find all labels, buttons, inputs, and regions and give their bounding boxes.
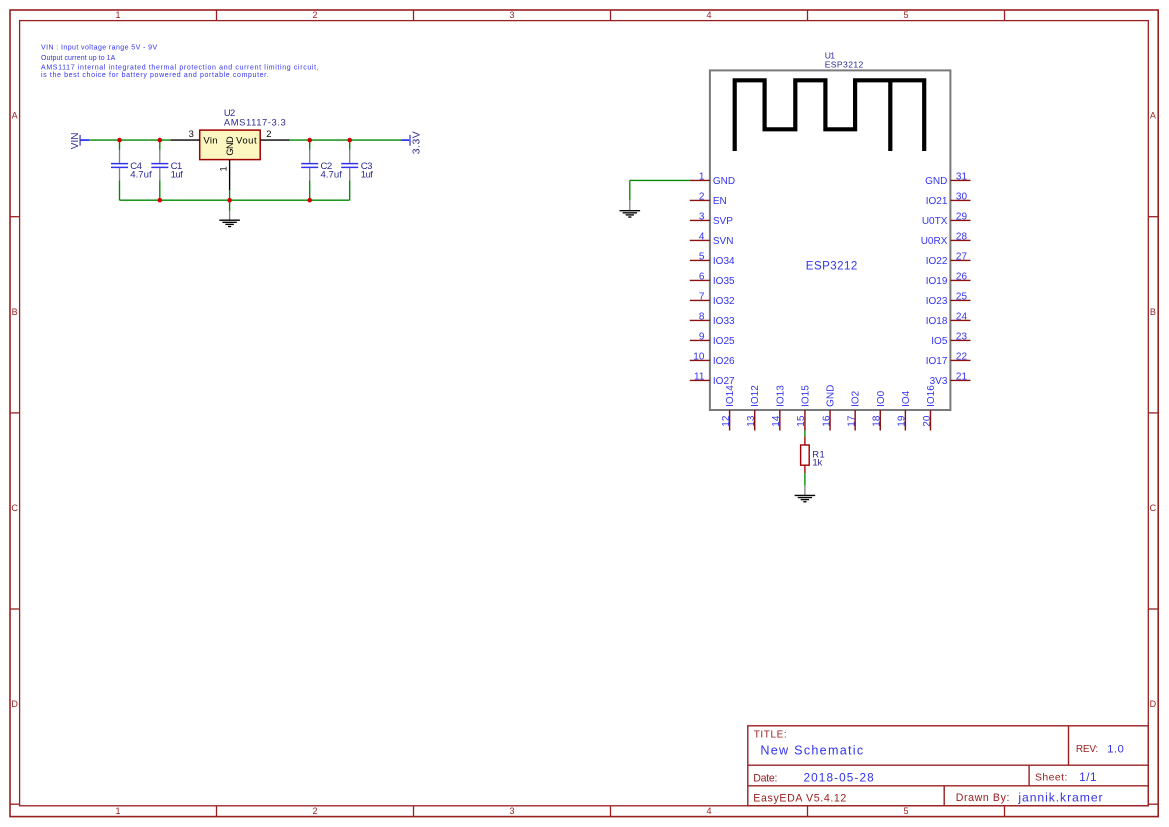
svg-text:GND: GND xyxy=(925,176,947,187)
regulator U2 AMS1117-3.3 body xyxy=(200,130,261,160)
svg-text:U0TX: U0TX xyxy=(922,216,948,227)
junction at C4 top xyxy=(117,138,122,143)
capacitor C1 1uf xyxy=(151,140,183,200)
svg-text:IO13: IO13 xyxy=(775,385,786,407)
U1 pin 30 IO21 xyxy=(926,192,971,207)
resistor R1 1k xyxy=(801,437,826,474)
svg-text:1uf: 1uf xyxy=(361,170,373,181)
svg-text:1.0: 1.0 xyxy=(1107,744,1124,756)
schematic note text xyxy=(41,45,319,79)
svg-text:28: 28 xyxy=(956,232,968,243)
svg-text:C: C xyxy=(11,503,18,513)
wire U2 pin1 to rail xyxy=(229,190,231,200)
svg-text:30: 30 xyxy=(956,192,968,203)
svg-text:26: 26 xyxy=(956,272,968,283)
svg-text:1: 1 xyxy=(218,166,229,171)
svg-text:6: 6 xyxy=(699,272,705,283)
wire VIN to U2 pin 3 xyxy=(89,139,170,141)
svg-text:IO23: IO23 xyxy=(926,296,948,307)
U1 pin 9 IO25 xyxy=(690,332,735,347)
U1 pin 1 GND xyxy=(690,172,735,187)
U1 pin 25 IO23 xyxy=(926,292,971,307)
svg-text:IO33: IO33 xyxy=(713,316,735,327)
U2 pin 2 xyxy=(260,128,290,140)
svg-text:AMS1117-3.3: AMS1117-3.3 xyxy=(224,117,286,128)
svg-text:4: 4 xyxy=(699,232,705,243)
svg-text:1k: 1k xyxy=(812,458,822,469)
svg-text:TITLE:: TITLE: xyxy=(754,730,788,741)
svg-text:22: 22 xyxy=(956,352,968,363)
svg-text:8: 8 xyxy=(699,312,705,323)
svg-text:7: 7 xyxy=(699,292,705,303)
U1 pin 12 IO14 xyxy=(721,385,736,431)
svg-text:IO34: IO34 xyxy=(713,256,735,267)
U1 pin 3 SVP xyxy=(690,212,733,227)
svg-text:IO0: IO0 xyxy=(876,390,887,407)
svg-text:18: 18 xyxy=(872,415,883,427)
svg-text:1: 1 xyxy=(115,806,120,816)
U1 pin 27 IO22 xyxy=(926,252,971,267)
svg-text:ESP3212: ESP3212 xyxy=(825,60,864,70)
svg-text:16: 16 xyxy=(821,415,832,427)
U1 pin 31 GND xyxy=(925,172,970,187)
svg-text:New Schematic: New Schematic xyxy=(760,744,864,758)
svg-text:U0RX: U0RX xyxy=(921,236,948,247)
svg-text:5: 5 xyxy=(903,10,908,20)
U1 pin 15 IO15 xyxy=(796,385,811,431)
U1 pin 8 IO33 xyxy=(690,312,735,327)
wire U1 pin 15 to R1 xyxy=(804,431,806,437)
svg-text:D: D xyxy=(11,699,18,709)
svg-text:IO35: IO35 xyxy=(713,276,735,287)
svg-text:EN: EN xyxy=(713,196,727,207)
svg-text:1/1: 1/1 xyxy=(1079,770,1097,784)
svg-text:3: 3 xyxy=(189,128,194,139)
svg-text:ESP3212: ESP3212 xyxy=(806,261,858,273)
svg-text:19: 19 xyxy=(897,415,908,427)
U2 pin 1 xyxy=(218,160,230,190)
svg-text:Drawn By:: Drawn By: xyxy=(956,792,1010,804)
svg-text:1uf: 1uf xyxy=(171,170,183,181)
wire ground rail xyxy=(120,199,350,201)
svg-text:17: 17 xyxy=(846,415,857,427)
svg-text:SVP: SVP xyxy=(713,216,733,227)
svg-text:IO17: IO17 xyxy=(926,356,948,367)
netflag VIN xyxy=(70,133,90,150)
ground under R1 xyxy=(795,486,816,502)
svg-text:Output current up to 1A: Output current up to 1A xyxy=(41,55,116,62)
svg-text:B: B xyxy=(1150,307,1156,317)
U1 pin 18 IO0 xyxy=(872,390,887,430)
svg-text:2: 2 xyxy=(266,128,271,139)
svg-text:IO32: IO32 xyxy=(713,296,735,307)
ground at U1 pin 1 xyxy=(620,200,641,217)
svg-text:jannik.kramer: jannik.kramer xyxy=(1017,790,1103,804)
svg-text:3: 3 xyxy=(509,806,514,816)
svg-text:21: 21 xyxy=(956,372,968,383)
IC U1 ESP3212 body xyxy=(710,70,951,410)
U1 pin 5 IO34 xyxy=(690,252,735,267)
svg-text:is the best choice for battery: is the best choice for battery powered a… xyxy=(41,72,269,79)
svg-text:3: 3 xyxy=(509,10,514,20)
U1 pin 16 GND xyxy=(821,385,836,431)
svg-text:IO4: IO4 xyxy=(901,390,912,407)
U1 pin 23 IO5 xyxy=(931,332,970,347)
junction at C1 bottom xyxy=(158,198,163,203)
U1 pin 19 IO4 xyxy=(897,390,912,430)
ground under U2 xyxy=(219,211,240,227)
svg-text:24: 24 xyxy=(956,312,968,323)
U1 pin 7 IO32 xyxy=(690,292,735,307)
svg-text:IO14: IO14 xyxy=(725,385,736,407)
U1 pin 10 IO26 xyxy=(690,352,735,367)
svg-text:10: 10 xyxy=(693,352,705,363)
svg-text:2: 2 xyxy=(699,192,705,203)
svg-text:Date:: Date: xyxy=(753,772,777,784)
svg-text:A: A xyxy=(12,111,18,121)
svg-text:27: 27 xyxy=(956,252,968,263)
svg-text:3.3V: 3.3V xyxy=(412,131,423,155)
capacitor C3 1uf xyxy=(341,140,373,200)
svg-text:29: 29 xyxy=(956,212,968,223)
U1 pin 17 IO2 xyxy=(846,390,861,430)
svg-text:2: 2 xyxy=(312,806,317,816)
svg-text:IO19: IO19 xyxy=(926,276,948,287)
U1 pin 6 IO35 xyxy=(690,272,735,287)
svg-text:IO16: IO16 xyxy=(926,385,937,407)
svg-text:IO22: IO22 xyxy=(926,256,948,267)
junction at U2 GND xyxy=(227,198,232,203)
U1 pin 2 EN xyxy=(690,192,727,207)
svg-text:4: 4 xyxy=(706,806,711,816)
svg-text:GND: GND xyxy=(826,385,837,407)
svg-text:5: 5 xyxy=(699,252,705,263)
svg-text:25: 25 xyxy=(956,292,968,303)
capacitor C4 4.7uf xyxy=(111,140,152,200)
svg-text:3: 3 xyxy=(699,212,705,223)
svg-text:4.7uf: 4.7uf xyxy=(130,170,152,181)
title block xyxy=(748,726,1149,806)
svg-text:SVN: SVN xyxy=(713,236,734,247)
svg-text:IO21: IO21 xyxy=(926,196,948,207)
svg-text:IO25: IO25 xyxy=(713,336,735,347)
svg-text:AMS1117 internal integrated th: AMS1117 internal integrated thermal prot… xyxy=(41,65,319,72)
svg-text:12: 12 xyxy=(721,415,732,427)
U1 pin 20 IO16 xyxy=(922,385,937,431)
svg-text:Sheet:: Sheet: xyxy=(1035,773,1068,784)
svg-text:GND: GND xyxy=(225,136,235,156)
U2 reference labels xyxy=(224,107,286,127)
svg-text:9: 9 xyxy=(699,332,705,343)
svg-text:REV:: REV: xyxy=(1076,744,1098,755)
svg-text:20: 20 xyxy=(922,415,933,427)
U1 reference labels xyxy=(825,50,864,69)
svg-text:GND: GND xyxy=(713,176,735,187)
svg-text:A: A xyxy=(1150,111,1156,121)
U1 pin 29 U0TX xyxy=(922,212,971,227)
netflag 3.3V xyxy=(401,131,422,155)
svg-text:IO15: IO15 xyxy=(800,385,811,407)
junction at C3 top xyxy=(347,138,352,143)
wire R1 to ground xyxy=(804,473,806,486)
svg-text:31: 31 xyxy=(956,172,968,183)
U1 pin 21 3V3 xyxy=(930,372,971,387)
svg-text:VIN : Input voltage range 5V -: VIN : Input voltage range 5V - 9V xyxy=(41,45,158,52)
svg-text:C: C xyxy=(1150,503,1157,513)
svg-text:2018-05-28: 2018-05-28 xyxy=(804,771,875,785)
svg-text:2: 2 xyxy=(312,10,317,20)
svg-text:IO12: IO12 xyxy=(750,385,761,407)
U1 pin 4 SVN xyxy=(690,232,734,247)
junction at C2 bottom xyxy=(307,198,312,203)
wire U2 pin 2 to 3.3V xyxy=(290,139,402,141)
U2 pin 3 xyxy=(170,128,199,140)
U1 pin 26 IO19 xyxy=(926,272,971,287)
svg-text:D: D xyxy=(1150,699,1157,709)
svg-text:4: 4 xyxy=(706,10,711,20)
svg-text:EasyEDA V5.4.12: EasyEDA V5.4.12 xyxy=(753,793,847,805)
svg-text:13: 13 xyxy=(746,415,757,427)
svg-text:Vout: Vout xyxy=(236,136,257,147)
svg-text:IO5: IO5 xyxy=(931,336,948,347)
U1 pin 13 IO12 xyxy=(746,385,761,431)
U1 antenna symbol xyxy=(735,80,925,151)
U1 pin 11 IO27 xyxy=(690,372,735,387)
svg-text:15: 15 xyxy=(796,415,807,427)
U1 pin 24 IO18 xyxy=(926,312,971,327)
wire U1 pin 1 to ground xyxy=(630,180,690,200)
svg-text:Vin: Vin xyxy=(203,136,218,147)
U1 pin 22 IO17 xyxy=(926,352,971,367)
svg-text:1: 1 xyxy=(115,10,120,20)
junction at C2 top xyxy=(307,138,312,143)
svg-text:B: B xyxy=(12,307,18,317)
svg-text:VIN: VIN xyxy=(70,133,81,150)
U1 pin 28 U0RX xyxy=(921,232,971,247)
svg-text:11: 11 xyxy=(694,372,705,383)
svg-text:IO18: IO18 xyxy=(926,316,948,327)
wire rail to ground stub xyxy=(229,200,231,211)
svg-text:1: 1 xyxy=(699,172,705,183)
svg-text:14: 14 xyxy=(771,415,782,427)
svg-text:4.7uf: 4.7uf xyxy=(321,170,343,181)
svg-text:IO26: IO26 xyxy=(713,356,735,367)
svg-text:5: 5 xyxy=(903,806,908,816)
svg-text:23: 23 xyxy=(956,332,968,343)
svg-text:IO2: IO2 xyxy=(851,390,862,407)
junction at C1 top xyxy=(158,138,163,143)
U1 pin 14 IO13 xyxy=(771,385,786,431)
capacitor C2 4.7uf xyxy=(301,140,342,200)
